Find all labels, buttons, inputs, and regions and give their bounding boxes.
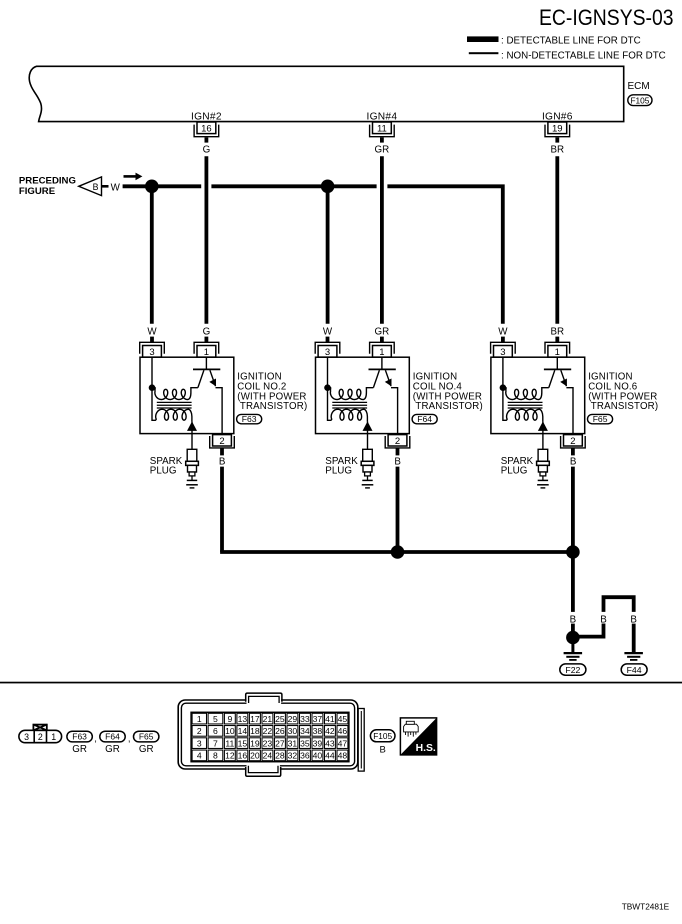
svg-text:6: 6 <box>213 726 218 736</box>
svg-text:37: 37 <box>313 714 323 724</box>
svg-text:21: 21 <box>263 714 273 724</box>
svg-text:W: W <box>147 326 157 337</box>
svg-text:G: G <box>203 326 211 337</box>
svg-text:EC-IGNSYS-03: EC-IGNSYS-03 <box>539 6 674 31</box>
svg-text:35: 35 <box>300 738 310 748</box>
transformer secondary winding with pin-3 feed wire <box>152 357 192 421</box>
stub from triangle <box>102 185 109 188</box>
wire B from pin 2 <box>571 448 575 456</box>
coil designation text F64 <box>413 372 483 413</box>
ECM pin 19 IGN#6 <box>542 112 573 143</box>
svg-text:2: 2 <box>197 726 202 736</box>
wire W drop to coil no.2 <box>150 186 154 323</box>
svg-text:GR: GR <box>375 145 390 156</box>
wire W horizontal bus segment 1 <box>152 184 201 188</box>
wire stub into pin 3 <box>501 337 505 343</box>
high tension output with arrow <box>538 421 548 449</box>
coil pin 2 <box>385 435 410 448</box>
internal junction node <box>149 384 156 391</box>
svg-text:1: 1 <box>379 347 384 358</box>
svg-text:36: 36 <box>300 751 310 761</box>
connector right rail <box>358 709 364 772</box>
svg-text:14: 14 <box>238 726 248 736</box>
svg-text:32: 32 <box>288 751 298 761</box>
connector pin numbers <box>197 714 348 761</box>
ignition coil box outline <box>316 357 410 433</box>
footer oval F63 <box>67 731 92 755</box>
wire G from ECM pin 16 down to coil <box>204 156 208 324</box>
off-page connector triangle B <box>79 177 102 196</box>
svg-text:W: W <box>111 182 121 193</box>
footer oval F105 <box>370 730 395 756</box>
wire B from pin 2 <box>396 448 400 456</box>
svg-text:IGN#2: IGN#2 <box>191 112 222 123</box>
junction node E <box>566 631 580 645</box>
connector pin grid cells <box>192 713 348 760</box>
high tension output with arrow <box>187 421 197 449</box>
svg-text:11: 11 <box>377 124 387 135</box>
connector bottom tab <box>246 764 281 776</box>
svg-text:47: 47 <box>338 738 348 748</box>
wire BR from ECM pin 19 down to coil <box>555 156 559 324</box>
svg-text:F65: F65 <box>593 414 608 424</box>
svg-text:TRANSISTOR): TRANSISTOR) <box>415 401 482 412</box>
ground symbol F44 <box>624 653 643 660</box>
svg-text:38: 38 <box>313 726 323 736</box>
svg-text:30: 30 <box>288 726 298 736</box>
svg-text:F22: F22 <box>565 665 580 675</box>
svg-text:7: 7 <box>213 738 218 748</box>
internal junction node <box>500 384 507 391</box>
svg-text:3: 3 <box>325 347 330 358</box>
comma separators <box>94 734 130 745</box>
svg-text:13: 13 <box>238 714 248 724</box>
wire B down from bus <box>571 552 575 612</box>
svg-text:F63: F63 <box>242 414 257 424</box>
coil pin 1 <box>194 342 219 358</box>
svg-text:19: 19 <box>552 124 563 135</box>
transformer core <box>157 402 192 408</box>
wire stub into pin 1 <box>204 337 208 343</box>
coil pin 3 <box>140 342 165 358</box>
wire B to ground junction <box>571 624 575 644</box>
svg-text:26: 26 <box>275 726 285 736</box>
svg-text:39: 39 <box>313 738 323 748</box>
wire W entry segment <box>123 184 152 188</box>
svg-text:2: 2 <box>395 436 400 447</box>
svg-text:1: 1 <box>204 347 209 358</box>
svg-text:F44: F44 <box>627 665 642 675</box>
junction node D <box>566 545 580 559</box>
connector F105 oval (ECM) <box>628 95 652 106</box>
svg-text:PLUG: PLUG <box>150 466 177 477</box>
transformer primary winding <box>328 388 374 400</box>
svg-text:11: 11 <box>225 738 234 748</box>
svg-text:GR: GR <box>375 326 390 337</box>
svg-text:B: B <box>394 456 401 467</box>
spark plug ground <box>537 480 549 488</box>
svg-text:3: 3 <box>500 347 505 358</box>
coil designation text F65 <box>588 372 658 413</box>
spark plug ground <box>362 480 374 488</box>
wire branch top loop <box>604 597 634 612</box>
wire B lower segment <box>571 467 575 552</box>
svg-text:F64: F64 <box>105 732 120 742</box>
H.S. view logo <box>400 718 436 755</box>
svg-text:4: 4 <box>197 751 202 761</box>
wire B lower segment <box>220 467 224 552</box>
svg-text:F65: F65 <box>139 732 154 742</box>
svg-text:BR: BR <box>550 145 564 156</box>
svg-text:TRANSISTOR): TRANSISTOR) <box>240 401 307 412</box>
coil pin 2 <box>561 435 586 448</box>
svg-text:B: B <box>600 614 607 625</box>
spark plug label <box>325 456 358 476</box>
wire stub into pin 3 <box>326 337 330 343</box>
spark plug label <box>150 456 183 476</box>
ground symbol F22 <box>564 653 583 660</box>
svg-text:20: 20 <box>250 751 260 761</box>
transformer secondary winding with pin-3 feed wire <box>328 357 368 421</box>
connector pin grid outline <box>191 712 349 761</box>
svg-text:16: 16 <box>201 124 212 135</box>
footer separator line <box>0 682 682 684</box>
wire stub into pin 1 <box>555 337 559 343</box>
svg-text:2: 2 <box>570 436 575 447</box>
legend non-detectable line sample <box>469 52 499 54</box>
svg-text:41: 41 <box>325 714 335 724</box>
power transistor Q4 <box>369 357 398 435</box>
svg-text:43: 43 <box>325 738 335 748</box>
ground stub F22 <box>571 644 574 652</box>
transformer primary winding <box>152 388 198 400</box>
internal junction node <box>324 384 331 391</box>
svg-text:25: 25 <box>275 714 285 724</box>
connector oval F64 <box>412 414 437 424</box>
svg-text:G: G <box>203 145 211 156</box>
svg-text:19: 19 <box>250 738 260 748</box>
svg-text:GR: GR <box>105 744 120 755</box>
svg-text:GR: GR <box>72 744 87 755</box>
svg-text:8: 8 <box>213 751 218 761</box>
svg-text:TRANSISTOR): TRANSISTOR) <box>591 401 658 412</box>
ECM pin 16 IGN#2 <box>191 112 222 143</box>
ignition coil no.4 assembly F64 <box>315 326 483 552</box>
wire stub into pin 1 <box>380 337 384 343</box>
svg-text:1: 1 <box>197 714 202 724</box>
svg-text:PRECEDING: PRECEDING <box>19 176 76 187</box>
svg-text:GR: GR <box>139 744 154 755</box>
coil pin 3 <box>315 342 340 358</box>
svg-text:22: 22 <box>263 726 273 736</box>
svg-text:44: 44 <box>325 751 335 761</box>
svg-text:42: 42 <box>325 726 335 736</box>
wire W drop to coil no.4 <box>326 186 330 323</box>
ignition coil no.6 assembly F65 <box>491 326 659 552</box>
ECM box U1 <box>29 66 623 121</box>
spark plug for cylinder no.6 <box>537 449 550 480</box>
wire branch to F44 lower segment <box>573 624 604 637</box>
power transistor Q2 <box>193 357 222 435</box>
transformer core <box>332 402 367 408</box>
svg-text:BR: BR <box>550 326 564 337</box>
coil pin 1 <box>545 342 570 358</box>
svg-text:B: B <box>93 182 99 192</box>
junction node B <box>321 180 335 194</box>
svg-text:2: 2 <box>219 436 224 447</box>
svg-text:18: 18 <box>250 726 260 736</box>
svg-text:F105: F105 <box>373 731 392 741</box>
svg-text:,: , <box>94 734 97 745</box>
svg-text:31: 31 <box>288 738 298 748</box>
wire B to ground F44 <box>632 624 636 652</box>
svg-text:48: 48 <box>338 751 348 761</box>
svg-text:TBWT2481E: TBWT2481E <box>622 902 670 912</box>
svg-text:1: 1 <box>51 732 56 742</box>
coil designation text F63 <box>237 372 307 413</box>
svg-text:27: 27 <box>275 738 285 748</box>
svg-text:PLUG: PLUG <box>325 466 352 477</box>
ground oval F44 <box>621 664 647 675</box>
svg-text:46: 46 <box>338 726 348 736</box>
wire B lower segment <box>396 467 400 552</box>
svg-text:2: 2 <box>38 732 43 742</box>
svg-text:34: 34 <box>300 726 310 736</box>
svg-text:10: 10 <box>225 726 235 736</box>
transformer secondary winding with pin-3 feed wire <box>503 357 543 421</box>
coil pin 1 <box>370 342 395 358</box>
footer oval F65 <box>134 731 159 755</box>
power transistor Q6 <box>544 357 573 435</box>
svg-text:12: 12 <box>225 751 235 761</box>
svg-text:15: 15 <box>238 738 248 748</box>
connector top tab <box>246 693 282 704</box>
svg-text:PLUG: PLUG <box>501 466 528 477</box>
svg-text:28: 28 <box>275 751 285 761</box>
wire GR from ECM pin 11 down to coil <box>380 156 384 324</box>
svg-text:3: 3 <box>24 732 29 742</box>
coil pin 3 <box>491 342 516 358</box>
ignition coil box outline <box>491 357 585 433</box>
footer oval F64 <box>100 731 125 755</box>
coil pin 2 <box>210 435 235 448</box>
svg-text:W: W <box>323 326 333 337</box>
svg-text:17: 17 <box>250 714 260 724</box>
svg-text:29: 29 <box>288 714 298 724</box>
spark plug for cylinder no.2 <box>186 449 199 480</box>
svg-text:: NON-DETECTABLE LINE FOR DTC: : NON-DETECTABLE LINE FOR DTC <box>501 50 666 61</box>
svg-text:FIGURE: FIGURE <box>19 186 56 197</box>
svg-text:IGN#4: IGN#4 <box>367 112 398 123</box>
spark plug ground <box>186 480 198 488</box>
spark plug for cylinder no.4 <box>361 449 374 480</box>
connector oval F65 <box>588 414 613 424</box>
svg-text:3: 3 <box>197 738 202 748</box>
svg-text:IGN#6: IGN#6 <box>542 112 573 123</box>
connector oval F63 <box>237 414 262 424</box>
wire W horizontal bus segment 3 with drop to coil no.6 <box>387 186 502 323</box>
spark plug label <box>501 456 534 476</box>
svg-text:ECM: ECM <box>628 81 650 92</box>
wire B from pin 2 <box>220 448 224 456</box>
wire stub into pin 3 <box>150 337 154 343</box>
junction node C <box>391 545 405 559</box>
svg-text:16: 16 <box>238 751 248 761</box>
svg-text:H.S.: H.S. <box>416 743 436 754</box>
ground oval F22 <box>560 664 586 675</box>
svg-text:23: 23 <box>263 738 273 748</box>
svg-text:40: 40 <box>313 751 323 761</box>
svg-text:B: B <box>219 456 226 467</box>
svg-text:24: 24 <box>263 751 273 761</box>
footer ECM connector body <box>178 700 358 769</box>
svg-text:33: 33 <box>300 714 310 724</box>
svg-text:F63: F63 <box>72 732 87 742</box>
svg-text:9: 9 <box>227 714 232 724</box>
legend detectable line sample <box>467 36 499 42</box>
svg-text:45: 45 <box>338 714 348 724</box>
ECM pin 11 IGN#4 <box>367 112 398 143</box>
ignition coil box outline <box>140 357 234 433</box>
svg-text:W: W <box>498 326 508 337</box>
wire W horizontal bus segment 2 <box>211 184 376 188</box>
svg-text:F64: F64 <box>417 414 432 424</box>
high tension output with arrow <box>363 421 373 449</box>
svg-text:: DETECTABLE LINE FOR DTC: : DETECTABLE LINE FOR DTC <box>501 36 641 47</box>
ignition coil no.2 assembly F63 <box>140 326 308 552</box>
svg-text:1: 1 <box>555 347 560 358</box>
transformer core <box>508 402 543 408</box>
svg-text:5: 5 <box>213 714 218 724</box>
svg-text:B: B <box>380 744 386 755</box>
transformer primary winding <box>503 388 549 400</box>
flow direction arrow <box>124 173 143 181</box>
svg-text:,: , <box>128 734 131 745</box>
footer coil connector face (3-pin) <box>19 725 62 743</box>
svg-text:B: B <box>570 456 577 467</box>
wire B ground bus <box>222 550 573 552</box>
svg-text:3: 3 <box>149 347 154 358</box>
junction node A <box>145 180 159 194</box>
svg-text:F105: F105 <box>630 95 649 105</box>
